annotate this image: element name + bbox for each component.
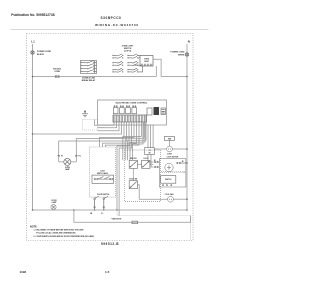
wire EOC to lock box e: [132, 122, 143, 160]
junction bottom bus left: [32, 209, 34, 211]
EOC small component block: [161, 108, 166, 115]
EOC terminal strip hatched: [113, 115, 147, 122]
node N label: [188, 40, 190, 44]
svg-text:FOLLOW LOCAL CODES AND ORDINAN: FOLLOW LOCAL CODES AND ORDINANCES.: [36, 231, 76, 234]
connector dashed box: [83, 120, 105, 131]
oven light assembly box: [140, 56, 153, 67]
label door switch: [97, 194, 110, 196]
junction N lock motor: [186, 162, 188, 164]
svg-text:NOTE:: NOTE:: [30, 226, 38, 229]
label power cord black: [37, 51, 52, 56]
switch contact grid: [112, 54, 138, 73]
junction bus2 at L1: [32, 133, 34, 135]
svg-text:ELECTRONIC OVEN CONTROL: ELECTRONIC OVEN CONTROL: [116, 103, 148, 105]
svg-text:1-5: 1-5: [105, 270, 110, 274]
wire plug P8 to motor box a: [148, 155, 153, 163]
motor cooling fan: [168, 196, 174, 202]
wire EOC to latch box b: [103, 122, 137, 147]
wire EOC to oven lamp left: [59, 122, 127, 162]
svg-text:* SEE NOTE: * SEE NOTE: [111, 218, 122, 220]
connector P24 on top bus: [53, 68, 61, 78]
diagram dashed border frame: [27, 34, 194, 241]
note line 1b: [36, 231, 76, 234]
label oven light switch: [122, 46, 134, 53]
connector plug P8: [145, 148, 155, 155]
component on branch: [132, 221, 138, 224]
junction long drop 1: [116, 209, 117, 210]
connector lamp right: [75, 155, 80, 158]
wire EOC to latch box a: [100, 122, 135, 147]
junction N top bus: [186, 76, 188, 78]
wire cooling fan to N: [173, 198, 187, 200]
wire EOC out 1: [95, 120, 115, 126]
junction bottom bus right: [186, 209, 188, 211]
note line 1: [34, 230, 85, 232]
junction L1 top bus: [32, 76, 34, 78]
svg-text:SWITCH: SWITCH: [165, 179, 172, 181]
wire cam1 to cam2: [138, 163, 142, 165]
lock motor left terminals: [154, 161, 159, 167]
wire top bus L1 to N: [33, 76, 188, 78]
wire EOC to L1 bus2: [33, 122, 122, 134]
svg-text:L1: L1: [31, 40, 35, 44]
wire EOC to lock box a: [123, 122, 142, 160]
wire EOC to plug P8 b: [150, 125, 152, 148]
wire EOC to lock box c: [128, 122, 146, 160]
wire bottom branch loop: [74, 210, 191, 222]
latch switch inner box: [92, 175, 114, 183]
svg-text:LOCK MOTOR: LOCK MOTOR: [167, 157, 179, 159]
motor convection fan: [167, 146, 173, 152]
svg-text:N: N: [188, 40, 190, 44]
svg-text:P3: P3: [61, 156, 63, 158]
junction bus3 latch a: [94, 209, 95, 210]
label power cord white: [171, 52, 186, 57]
footer date 1092: [20, 270, 27, 274]
terminal label 2E: [182, 161, 184, 163]
svg-text:P9: P9: [84, 112, 86, 114]
label see note: [111, 218, 122, 220]
terminal label 2D: [154, 160, 157, 162]
lock motor box hatch: [161, 171, 185, 173]
lock motor box: [159, 159, 186, 187]
svg-text:CONN: CONN: [54, 71, 60, 73]
wires switch grid to light box: [134, 55, 143, 72]
svg-text:POWER CORD: POWER CORD: [171, 52, 186, 54]
wire EOC long drop 2: [119, 122, 131, 216]
svg-text:(2 OF 4): (2 OF 4): [124, 49, 131, 52]
connector lamp left: [58, 155, 63, 158]
svg-text:599512-B: 599512-B: [101, 242, 119, 246]
ground chassis symbol: [82, 110, 88, 117]
latch switch box: [90, 147, 116, 197]
door lock assembly dashed box: [125, 150, 161, 202]
svg-text:WIRING-SC-W946730: WIRING-SC-W946730: [95, 23, 139, 27]
wire EOC to lock box b: [125, 122, 144, 160]
terminal labels 2B 2C: [90, 213, 104, 215]
label oven lamp: [65, 167, 71, 171]
svg-text:1092: 1092: [20, 270, 27, 274]
wire EOC to latch box c: [106, 122, 140, 147]
label cooling fan: [165, 193, 174, 196]
diagram part number 599512-B: [101, 242, 119, 246]
wire EOC out 2: [98, 122, 117, 128]
node L1 label: [31, 40, 35, 44]
svg-text:WHITE: WHITE: [178, 55, 185, 57]
wire EOC to plug P8 c: [152, 125, 154, 148]
svg-text:SWITCH ASM.: SWITCH ASM.: [97, 172, 109, 175]
junction bus3 latch b: [103, 209, 104, 210]
connector block conv fan: [164, 137, 174, 141]
svg-text:BLACK: BLACK: [37, 53, 45, 56]
wire plug P8 to motor box b: [151, 155, 153, 168]
EOC board outline: [98, 100, 167, 125]
wire EOC to lock box d: [130, 122, 145, 160]
footer page number 1-5: [105, 270, 110, 274]
wire EOC to oven lamp right: [76, 122, 124, 162]
wire cooling fan left: [139, 198, 167, 200]
EOC relay block K1 outline: [147, 108, 152, 115]
wire EOC to plug P8 a: [147, 125, 149, 148]
wire cam3 to cooling fan: [138, 185, 140, 199]
junction N cooling fan: [186, 198, 188, 200]
note heading: [30, 226, 38, 229]
svg-text:S30BPCC0: S30BPCC0: [101, 16, 122, 20]
label latch switch: [97, 171, 109, 175]
label conv motor: [167, 153, 173, 155]
header wiring schematic title text: [95, 23, 139, 27]
lock cam switch 3: [129, 179, 137, 189]
label lock motor: [167, 157, 179, 159]
wire cam1 to cam3: [132, 168, 134, 180]
terminal power cord black: [31, 51, 34, 54]
wire conv motor to N: [172, 148, 187, 150]
svg-text:2E: 2E: [182, 161, 184, 163]
relay DLB contact block: [81, 61, 97, 74]
dotted assembly boundary: [117, 212, 191, 241]
note line 2: [34, 235, 95, 238]
svg-text:2. COMPONENTS SHOWN ARE AT ROO: 2. COMPONENTS SHOWN ARE AT ROOM TEMPERAT…: [34, 235, 95, 238]
EOC connector plugs P1 P2 P3: [113, 105, 136, 114]
wire L1 rail vertical: [32, 44, 34, 210]
wire light box bottom stub: [155, 66, 157, 77]
svg-text:Publication No. 5995512738: Publication No. 5995512738: [11, 13, 54, 17]
wire EOC long drop 1: [117, 122, 129, 210]
label double line break relay: [82, 78, 96, 82]
svg-text:UNLOCK: UNLOCK: [130, 158, 138, 160]
svg-text:1. DISCONNECT POWER BEFORE SER: 1. DISCONNECT POWER BEFORE SERVICING THI…: [34, 230, 85, 232]
oven lamp: [64, 158, 71, 165]
svg-text:COOL FAN: COOL FAN: [165, 193, 174, 196]
wire light box to top bus right: [153, 59, 161, 76]
header publication number text: [11, 13, 54, 17]
lock cam switch 2: [142, 158, 150, 168]
latch box bottom terminals: [94, 196, 108, 210]
label door lamp: [51, 200, 57, 204]
wire EOC out 3: [98, 122, 120, 131]
lock motor right terminals: [177, 162, 187, 163]
wire conv block to motor: [169, 140, 171, 146]
wire cam2 to motor box: [150, 163, 154, 165]
svg-text:POWER CORD: POWER CORD: [37, 51, 52, 53]
header model number text: [101, 16, 122, 20]
svg-text:88: 88: [149, 152, 151, 154]
wire N rail vertical: [186, 44, 188, 210]
door lamp on bottom bus: [51, 205, 56, 210]
wire oven lamp loop: [59, 161, 77, 163]
svg-text:CONV: CONV: [167, 153, 173, 155]
junction N conv: [186, 148, 188, 150]
lock switch sub box: [161, 176, 176, 186]
wire bottom bus: [33, 209, 188, 211]
svg-text:BREAK RELAY: BREAK RELAY: [82, 79, 96, 82]
svg-text:DOOR SWITCH: DOOR SWITCH: [97, 194, 110, 196]
junction bottom branch: [73, 209, 75, 211]
label electronic oven control: [116, 103, 148, 105]
EOC dark component: [154, 107, 160, 115]
terminal power cord white: [185, 53, 188, 56]
lock cam switch 1: [129, 158, 137, 168]
motor lock: [165, 163, 173, 171]
wire plug P8 to conv motor: [154, 148, 166, 150]
header horizontal rule: [11, 29, 209, 31]
